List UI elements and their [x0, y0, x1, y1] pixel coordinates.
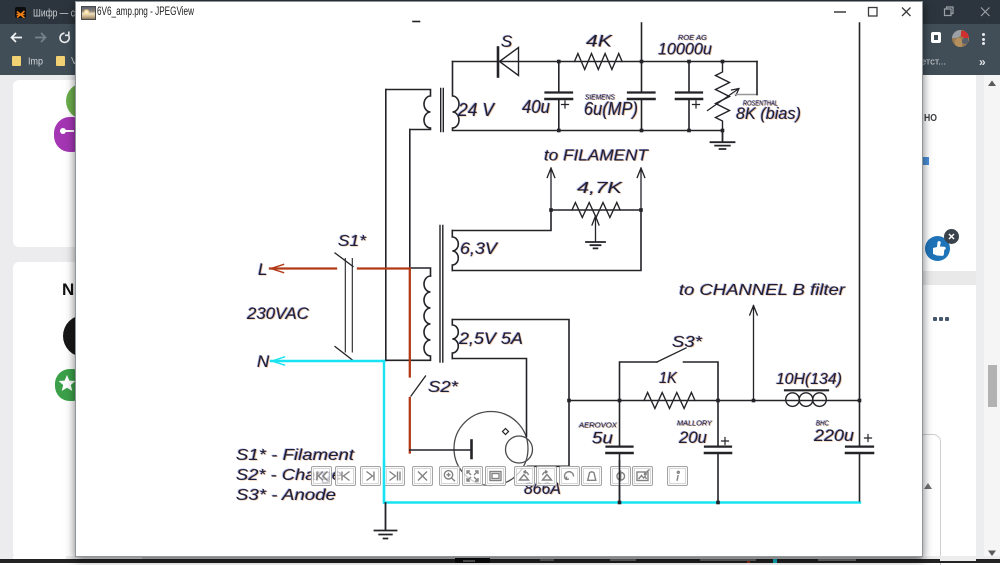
switch S1 linkage	[345, 259, 352, 353]
node to CHANNEL B arrow	[750, 306, 758, 401]
tube 866A anode circle	[506, 436, 533, 463]
wire T1 primary bottom to L node	[409, 130, 411, 268]
wire 2.5V top lead to B+ node	[452, 320, 569, 467]
potentiometer 4,7K wiper arrow	[592, 216, 599, 242]
wire filament link	[551, 209, 641, 211]
wire L red mains lead with arrow	[270, 264, 410, 452]
transformer T1 24V secondary winding	[453, 62, 460, 130]
capacitor C4 5u	[619, 401, 621, 447]
wire cyan N down leg	[383, 361, 385, 503]
transformer T2 6.3V winding	[452, 231, 458, 271]
tube 866A envelope	[454, 412, 528, 486]
potentiometer 4,7K	[572, 203, 620, 218]
rheostat 8K wiper arrow	[708, 89, 740, 111]
capacitor C2 6u(MP) lead/plates	[641, 23, 643, 92]
transformer T1 primary winding	[386, 90, 431, 130]
capacitor C6 220u	[859, 401, 861, 447]
wire 2.5V bottom lead to anode	[452, 359, 526, 437]
transformer T2 2.5V winding	[452, 320, 458, 359]
transformer T1 core	[441, 89, 444, 132]
node to FILAMENT arrow left	[547, 168, 555, 210]
switch S1 pole L blade	[335, 253, 353, 267]
resistor 1K	[644, 393, 695, 409]
wire B+ right rail cropped top	[859, 23, 861, 401]
capacitor C3 10000u lead/plates	[688, 62, 690, 93]
node B+ top wire	[453, 61, 758, 63]
switch S3 bypass legs	[620, 362, 719, 401]
rheostat 8K (bias)	[716, 62, 730, 132]
transformer T2 core	[440, 226, 443, 363]
switch S2 blade	[411, 376, 426, 396]
capacitor C1 40u lead/plates	[558, 62, 560, 93]
node B+ main filter wire	[569, 400, 860, 402]
ground bias network	[711, 132, 735, 150]
wire 6.3V top lead	[452, 210, 551, 231]
wire S2 to 866A filament	[410, 449, 472, 451]
switch S1 pole N blade	[335, 347, 353, 361]
junction dots	[549, 60, 861, 505]
inductor 10H(134) core bar	[785, 389, 828, 391]
tube 866A filament electrode	[470, 441, 473, 459]
left page content	[0, 75, 76, 563]
tube 866A gas dot	[503, 429, 509, 435]
diode S triangle	[500, 48, 519, 76]
right browser top icons	[940, 5, 995, 19]
wire red L drop to S2	[409, 269, 411, 377]
wire N cyan mains lead with arrow	[271, 357, 860, 503]
right browser column	[922, 75, 1000, 557]
node to FILAMENT arrow right	[637, 168, 645, 210]
diode S cathode bar	[497, 48, 500, 77]
title bar icon (sunset thumbnail)	[81, 6, 96, 20]
inductor 10H(134) loops	[786, 393, 800, 407]
transformer T2 primary 230V winding	[386, 276, 431, 360]
switch S3 blade	[657, 348, 686, 362]
left browser tab + nav icons	[15, 7, 26, 18]
wire cropped stub top left	[413, 21, 420, 23]
ground 4,7K wiper	[586, 242, 605, 248]
wire 5u lower lead over toolbar	[619, 460, 621, 502]
resistor 4K	[575, 54, 623, 70]
polarity plus marks	[562, 101, 569, 108]
wire 6.3V bottom lead	[452, 210, 641, 271]
wire L node to T2 primary top	[410, 268, 431, 276]
window caption buttons	[830, 4, 916, 20]
capacitor C5 20u	[717, 401, 719, 447]
ground main bus	[375, 503, 397, 539]
wire 8K wiper to B+ corner	[736, 94, 758, 96]
wire cyan ground bus	[384, 501, 860, 503]
wire T1 primary top to N rail	[385, 90, 387, 361]
wire bias bottom rail	[453, 130, 723, 132]
